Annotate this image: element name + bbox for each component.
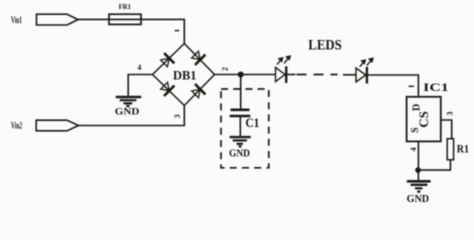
svg-text:GND: GND (229, 148, 250, 159)
svg-text:3: 3 (444, 111, 454, 115)
svg-text:S: S (410, 127, 421, 133)
svg-text:3: 3 (173, 114, 182, 118)
svg-text:C1: C1 (245, 116, 259, 130)
svg-text:D: D (412, 104, 423, 111)
svg-text:4: 4 (137, 63, 141, 72)
svg-text:R1: R1 (457, 142, 469, 156)
svg-text:CS: CS (416, 111, 431, 128)
svg-text:4: 4 (409, 147, 418, 151)
svg-text:Vin1: Vin1 (11, 16, 22, 26)
svg-text:LEDS: LEDS (308, 38, 342, 54)
svg-text:DB1: DB1 (173, 67, 197, 82)
svg-text:GND: GND (407, 193, 430, 205)
svg-text:GND: GND (115, 107, 140, 117)
svg-text:FR1: FR1 (119, 2, 131, 11)
svg-text:Vin2: Vin2 (11, 121, 22, 131)
svg-text:IC1: IC1 (423, 80, 449, 94)
svg-text:2: 2 (221, 67, 230, 71)
